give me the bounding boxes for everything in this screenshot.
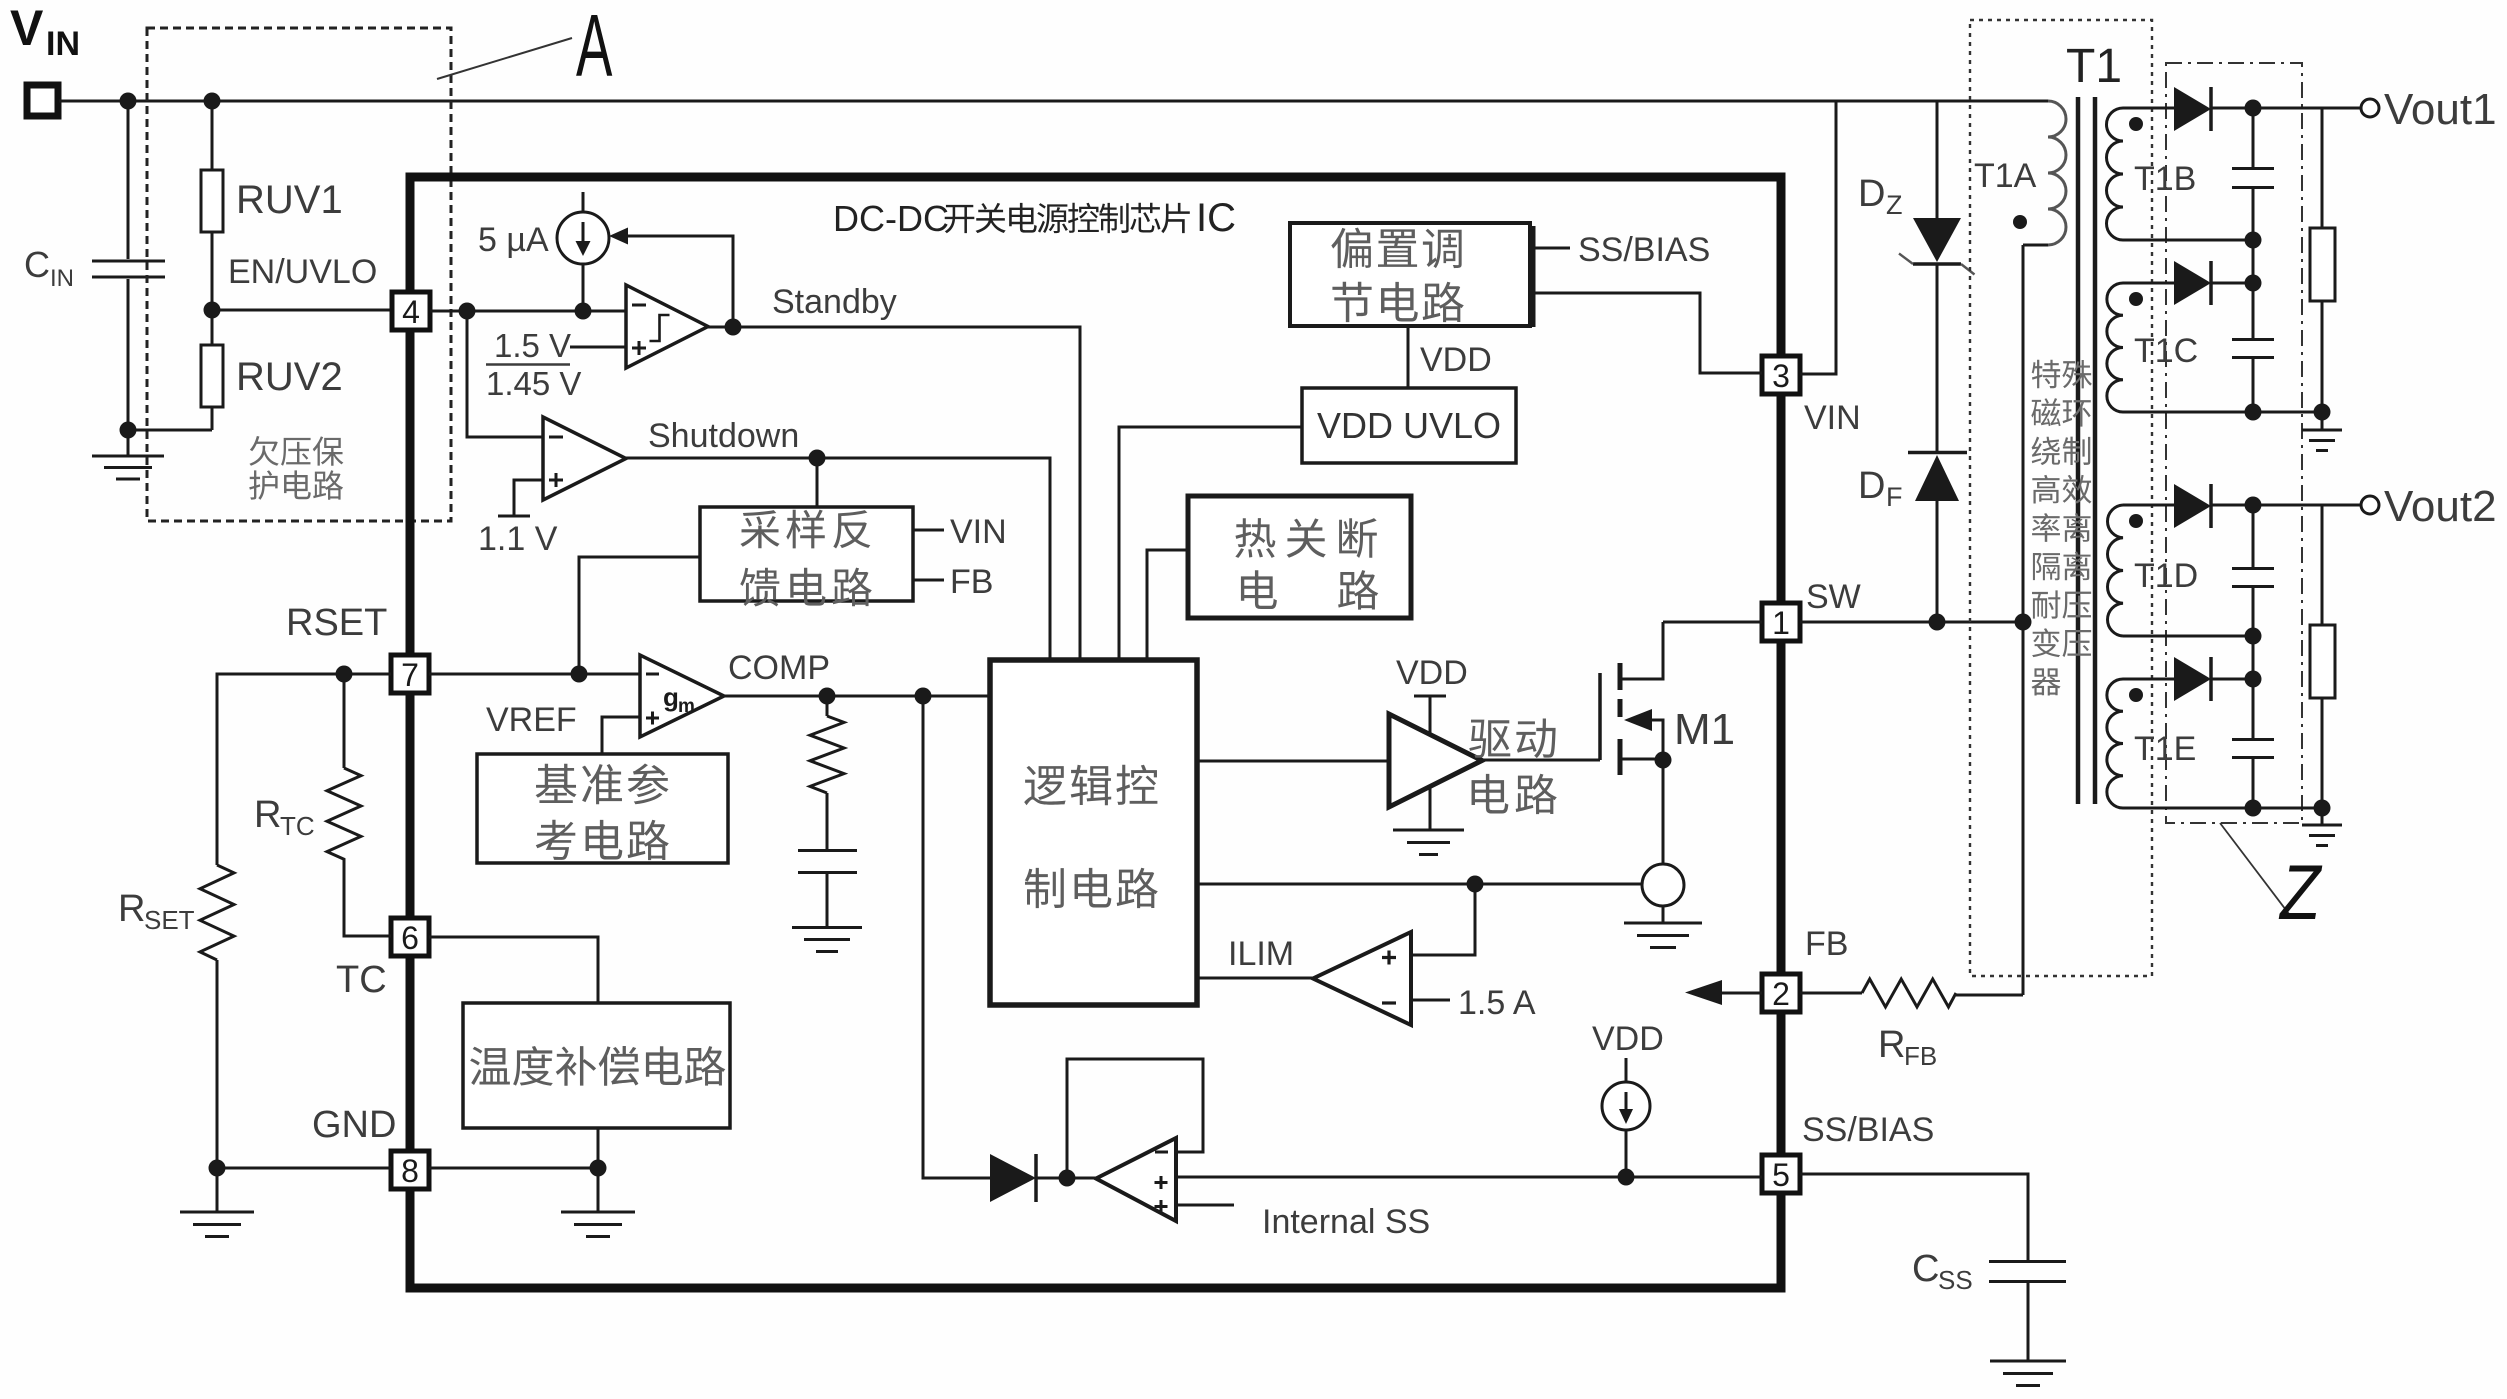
svg-text:1.5 A: 1.5 A [1458,984,1536,1022]
wire thermal to logic [1147,550,1188,660]
svg-text:R: R [118,888,145,930]
svg-text:SS: SS [1938,1265,1973,1295]
svg-text:D: D [1858,173,1885,215]
inductor T1D secondary [2108,505,2253,636]
node RTC tap [336,666,353,683]
resistor RSET [118,865,234,1168]
wire bias box to pin3 [1530,293,1762,373]
wire VREF from reference box [602,717,640,754]
svg-text:EN/UVLO: EN/UVLO [228,253,377,291]
svg-text:4: 4 [402,294,420,330]
node phase dot T1C [2129,292,2143,306]
diode DZ zener clamp [1858,101,1975,452]
svg-text:T1D: T1D [2134,557,2198,595]
wire VDD UVLO to logic [1119,427,1302,660]
wire GND rail inside [429,1167,598,1170]
svg-text:SW: SW [1806,578,1861,616]
wire temp box to GND rail [597,1128,600,1168]
node D4 output junction [2245,671,2262,688]
wire ILIM output to logic [1197,977,1313,980]
node standby output [725,319,742,336]
resistor load1 [2310,108,2335,412]
svg-text:T1: T1 [2066,40,2122,93]
text chinese labels [249,203,2092,1086]
wire sample box to pin7 rail [579,557,700,674]
op-amp internal SS buffer [1096,1138,1176,1221]
wire feedback loop of SS buffer [1067,1059,1203,1178]
block sampling feedback circuit [700,507,913,601]
current source 5uA [478,192,609,311]
wire pin4 to comparator [430,310,626,313]
svg-text:3: 3 [1772,358,1790,394]
resistor RFB [1800,979,2023,1071]
svg-text:F: F [1886,482,1903,512]
wire pin4 down to shutdown comparator [467,311,543,437]
wire pin6 to temp box [429,937,598,1003]
ground under CIN [92,430,164,479]
capacitor CIN [24,101,165,430]
wire pin7 to RSET resistor [217,674,391,865]
node Vout2 cap tap [2245,497,2262,514]
capacitor CSS [1800,1174,2066,1360]
node sample box tap [571,666,588,683]
ground under sense [1624,906,1702,948]
op-amp standby comparator with hysteresis [626,285,708,368]
node ILIM tap [1467,876,1484,893]
node load1 bottom [2314,404,2331,421]
node 5uA source tap [575,303,592,320]
pin 1 SW [1762,603,1800,641]
svg-text:1.5 V: 1.5 V [494,327,571,364]
node M1 source [1655,752,1672,769]
svg-text:8: 8 [401,1153,419,1189]
ground of RC network [792,928,862,952]
node primary return junction [2015,614,2032,631]
svg-text:5: 5 [1772,1157,1790,1193]
wire SW rail [1800,621,2023,624]
op-amp ILIM comparator [1313,932,1411,1025]
node GND rail left [209,1160,226,1177]
resistor RTC [254,674,391,936]
svg-text:T1B: T1B [2134,160,2196,198]
capacitor C4 [2232,679,2274,808]
wire COMP down to soft-start diode [923,696,990,1178]
svg-text:VDD: VDD [1396,654,1468,692]
wire return to load2 [2253,807,2322,810]
svg-text:FB: FB [950,563,993,601]
terminal Vout1 [2361,99,2379,117]
node output2 return junction [2245,800,2262,817]
reference 1.5A stub [1411,984,1536,1022]
op-amp gm error amplifier [640,655,724,737]
svg-text:D: D [1858,465,1885,507]
capacitor C2 [2232,283,2274,412]
pin 8 GND [391,1151,429,1189]
ground under temp box [561,1168,635,1237]
resistor RUV1 [201,101,343,310]
svg-text:T1A: T1A [1974,157,2037,195]
svg-text:RSET: RSET [286,602,387,644]
wire SS rail to pin5 [1176,1176,1762,1179]
wire return to load1 [2253,411,2322,414]
dashed box transformer T1 [1970,20,2152,976]
node phase dot T1B [2129,117,2143,131]
node shutdown branch [809,450,826,467]
svg-text:T1E: T1E [2134,730,2196,768]
node phase dot T1E [2129,688,2143,702]
terminal Vout2 [2361,496,2379,514]
label 1.5V/1.45V thresholds [486,327,626,402]
dashed box undervoltage protection A [147,28,451,521]
node load2 bottom [2314,800,2331,817]
ground output2 [2302,808,2342,846]
pin 5 SS/BIAS [1762,1155,1800,1193]
wire GND rail outside [217,1167,391,1170]
svg-text:1.45 V: 1.45 V [486,365,581,402]
node VIN-CIN junction [120,93,137,110]
wire gm output to logic box [724,695,990,698]
svg-text:IC: IC [1196,196,1236,240]
inductor T1B secondary [2107,108,2254,240]
wire primary return vertical [2022,245,2025,995]
svg-text:VREF: VREF [486,701,577,739]
svg-text:IN: IN [46,25,80,63]
wire shutdown branch to sample box [816,458,819,507]
node phase dot T1A [2013,215,2027,229]
inductor T1A primary [2023,101,2066,245]
svg-text:SS/BIAS: SS/BIAS [1578,231,1710,269]
node COMP RC tap [819,688,836,705]
node VIN-RUV1 junction [204,93,221,110]
svg-text:SS/BIAS: SS/BIAS [1802,1111,1934,1149]
svg-text:VIN: VIN [950,513,1007,551]
svg-text:5 µA: 5 µA [478,221,549,259]
svg-text:1: 1 [1772,605,1790,641]
svg-text:VDD: VDD [1420,341,1492,379]
ground under CSS [1990,1361,2066,1386]
svg-text:1.1 V: 1.1 V [478,520,558,558]
svg-text:7: 7 [401,657,419,693]
svg-text:g: g [663,682,679,712]
svg-text:6: 6 [401,920,419,956]
wire shutdown to logic [626,458,1050,660]
wire logic to driver [1197,760,1389,763]
wire standby to logic [708,327,1080,660]
pin 6 TC [391,918,429,956]
label Z with leader line [2220,823,2323,936]
diode rectifier D3 [2174,484,2361,528]
svg-text:M1: M1 [1674,705,1735,754]
wire pin7 to gm amp [429,673,640,676]
wire VIN tick of sample box [913,529,944,532]
svg-text:A: A [576,0,613,95]
svg-text:VIN: VIN [1804,399,1861,437]
wire EN to pin4 [212,309,392,312]
svg-text:V: V [10,0,44,56]
node EN junction [204,302,221,319]
node output1 return junction [2245,404,2262,421]
node GND under temp box [590,1160,607,1177]
diode soft-start [990,1154,1096,1202]
svg-text:DC-DC: DC-DC [833,198,949,239]
node T1D bottom junction [2245,628,2262,645]
block bias adjust circuit [1290,223,1532,327]
wire bias box to VDD UVLO [1407,326,1410,388]
svg-text:Internal SS: Internal SS [1262,1203,1430,1241]
svg-text:Vout2: Vout2 [2384,482,2497,531]
svg-text:GND: GND [312,1104,396,1146]
svg-text:SET: SET [144,905,195,935]
node CIN-RUV2 junction [120,422,137,439]
svg-text:TC: TC [336,959,387,1001]
op-amp shutdown comparator [543,417,626,500]
current sense bubble [1642,864,1684,906]
wire stack link1 [2252,240,2255,283]
wire FB tick of sample box [913,579,944,582]
wire VIN top rail [59,100,2048,103]
wire SS/BIAS tick of bias box [1530,247,1570,250]
pin 7 RSET [391,655,429,693]
node Vout1 cap tap [2245,100,2262,117]
svg-text:FB: FB [1904,1041,1937,1071]
capacitor C3 [2232,505,2274,636]
diode DF freewheel [1858,453,1967,623]
ground under driver [1393,786,1464,855]
node T1B bottom junction [2245,232,2262,249]
svg-text:COMP: COMP [728,649,830,687]
resistor compensation R [810,696,844,793]
resistor RUV2 [128,310,343,430]
wire stack link2 [2252,636,2255,679]
resistor load2 [2310,505,2335,808]
transistor M1 MOSFET [1600,622,1735,775]
svg-text:IN: IN [50,265,74,292]
label VDD above driver [1396,654,1468,735]
label title DC-DC IC [833,196,1236,240]
block logic control circuit [990,660,1197,1005]
svg-text:2: 2 [1772,976,1790,1012]
IC outline DC-DC controller [410,177,1781,1288]
svg-text:m: m [678,696,695,717]
wire M1 drain to pin1 [1663,621,1762,624]
pin 2 FB [1762,974,1800,1012]
block temperature compensation [463,1003,730,1128]
pin 3 VIN [1762,356,1800,394]
node pin4 branch [459,303,476,320]
node diode cathode [1059,1170,1076,1187]
svg-text:C: C [1912,1248,1939,1290]
op-amp driver amplifier [1389,714,1482,807]
ground output1 [2302,412,2342,451]
node D2 output junction [2245,275,2262,292]
reference 1.1V at plus input [478,480,558,558]
wire FB arrow from pin2 [1685,980,1762,1005]
node COMP diode tap [915,688,932,705]
inductor T1C secondary [2107,283,2253,412]
svg-text:C: C [24,244,50,285]
node DF junction [1929,614,1946,631]
label A with leader line [437,0,613,95]
svg-text:R: R [1878,1024,1905,1066]
block VDD UVLO [1302,388,1516,463]
svg-text:Vout1: Vout1 [2384,85,2497,134]
capacitor compensation C [798,793,857,926]
pin 4 EN/UVLO [392,292,430,330]
svg-text:TC: TC [280,811,315,841]
svg-text:R: R [254,794,281,836]
diode rectifier D1 [2174,87,2361,131]
diode rectifier D4 [2174,657,2253,701]
svg-text:RUV1: RUV1 [236,178,343,222]
svg-text:Shutdown: Shutdown [648,417,799,455]
capacitor C1 [2232,108,2274,240]
svg-text:VDD: VDD [1592,1020,1664,1058]
block thermal shutdown [1188,496,1411,618]
svg-text:T1C: T1C [2134,332,2198,370]
wire driver to gate [1482,759,1600,762]
wire Internal SS stub [1176,1204,1234,1207]
inductor T1E secondary [2107,679,2253,808]
svg-text:Z: Z [2278,849,2323,936]
svg-text:RUV2: RUV2 [236,355,343,399]
node VDD source junction [1618,1169,1635,1186]
diode rectifier D2 [2174,261,2253,305]
wire standby feedback to 5uA with arrowhead [609,228,733,328]
svg-text:Standby: Standby [772,283,897,321]
dash-dot box rectifier Z [2166,63,2302,823]
svg-text:ILIM: ILIM [1228,935,1294,973]
current source VDD bias [1592,1020,1664,1177]
terminal VIN [10,0,80,116]
ground under RSET [180,1168,254,1237]
wire logic to sense node [1197,883,1642,886]
svg-text:VDD UVLO: VDD UVLO [1317,405,1501,446]
block reference circuit [477,754,728,863]
wire ILIM tap down to comparator [1411,884,1475,955]
svg-text:Z: Z [1886,190,1903,220]
wire pin3 to top rail [1800,101,1836,374]
transformer core [2078,97,2095,804]
wire source to sense [1662,760,1665,864]
svg-text:FB: FB [1805,925,1848,963]
node phase dot T1D [2129,514,2143,528]
